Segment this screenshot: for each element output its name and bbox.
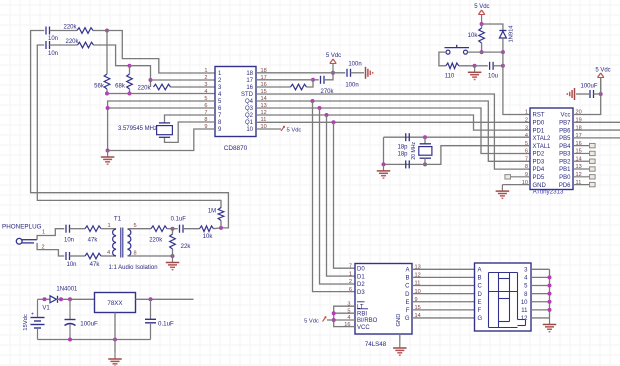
svg-text:18p: 18p bbox=[397, 145, 408, 151]
connector stub pin 12 bbox=[573, 175, 595, 179]
junction R3 bottom bbox=[105, 92, 109, 96]
svg-text:D: D bbox=[405, 292, 410, 298]
wire regulator out rail bbox=[136, 298, 194, 300]
svg-text:1N914: 1N914 bbox=[509, 25, 515, 43]
ground GND3 bbox=[468, 66, 482, 80]
svg-text:22k: 22k bbox=[181, 244, 192, 250]
svg-text:20 MHz: 20 MHz bbox=[411, 141, 417, 159]
wire R7 to switch row bbox=[481, 43, 483, 52]
pin numbers U1 right bbox=[261, 68, 267, 130]
svg-text:17: 17 bbox=[246, 78, 253, 84]
svg-text:E: E bbox=[478, 300, 482, 306]
resistor R9 47k bbox=[85, 226, 101, 244]
junction display bus y301 bbox=[548, 300, 552, 304]
label 74LS48 bbox=[365, 341, 387, 348]
svg-text:100uF: 100uF bbox=[580, 84, 597, 90]
wire 5V to R7 bbox=[481, 24, 483, 28]
junction node X bbox=[219, 226, 223, 230]
svg-text:D1: D1 bbox=[357, 274, 365, 280]
svg-text:1N4001: 1N4001 bbox=[56, 287, 78, 293]
crystal X1 3.579545 MHz bbox=[118, 123, 172, 137]
diode D2 1N914 bbox=[499, 25, 514, 43]
svg-text:PB4: PB4 bbox=[559, 144, 571, 150]
svg-text:V1: V1 bbox=[42, 306, 50, 312]
svg-text:1: 1 bbox=[525, 110, 528, 116]
wire pin 5 to ground rail bbox=[108, 101, 215, 151]
svg-text:7: 7 bbox=[525, 156, 528, 162]
resistor R14 1M bbox=[208, 208, 224, 221]
connector stub pin 15 bbox=[573, 151, 595, 155]
wire R3 to pin4 rail bbox=[106, 89, 108, 94]
resistor R8 110 bbox=[445, 63, 459, 80]
svg-text:G: G bbox=[478, 316, 483, 322]
wire segment E bbox=[412, 301, 475, 303]
pin numbers U1 left bbox=[204, 68, 207, 130]
connector stub pin 16 bbox=[573, 143, 595, 147]
wire C6 to Vcc riser bbox=[594, 93, 601, 95]
junction RBI bbox=[332, 311, 336, 315]
svg-text:2: 2 bbox=[525, 117, 528, 123]
wire R6 to node St bbox=[307, 80, 314, 87]
svg-text:1M: 1M bbox=[208, 209, 216, 215]
junction Vdd node bbox=[331, 71, 335, 75]
svg-text:74LS48: 74LS48 bbox=[365, 341, 387, 348]
junction reset top bbox=[480, 22, 484, 26]
resistor R12 22k bbox=[170, 234, 192, 250]
svg-text:D: D bbox=[478, 292, 483, 298]
ground GND10 bbox=[543, 318, 557, 332]
label T1 bbox=[114, 215, 122, 222]
svg-text:A: A bbox=[478, 268, 482, 274]
wire node A down to R3 bbox=[106, 31, 108, 75]
wire node Y to R12 bbox=[172, 229, 174, 234]
svg-text:100n: 100n bbox=[345, 83, 358, 89]
connector stub pin 13 bbox=[573, 167, 595, 171]
wire diode to RST node bbox=[502, 38, 504, 52]
wire regulator gnd bbox=[114, 313, 116, 353]
wire node B to node C bbox=[130, 66, 151, 87]
pin numbers U4 left bbox=[344, 263, 352, 327]
svg-text:11: 11 bbox=[521, 308, 528, 314]
resistor R13 10k bbox=[200, 226, 214, 240]
wire pin 16 to R6 bbox=[256, 86, 291, 88]
wire Q2 tap to D1 bbox=[327, 115, 356, 276]
svg-text:F: F bbox=[478, 308, 482, 314]
junction diode cathode bbox=[59, 297, 63, 301]
power 5Vdc port Vcc bbox=[595, 68, 610, 95]
wire pin 8 to crystal bottom bbox=[165, 122, 216, 142]
svg-text:C: C bbox=[405, 284, 410, 290]
svg-text:110: 110 bbox=[445, 74, 455, 80]
wire Q4 tap to D3 bbox=[313, 101, 356, 292]
svg-text:PB1: PB1 bbox=[559, 167, 571, 173]
connector stub pin 11 bbox=[573, 182, 595, 186]
ground GND8 bbox=[108, 353, 122, 366]
svg-text:PD5: PD5 bbox=[533, 175, 545, 181]
wire Q1 tap to D0 bbox=[334, 122, 356, 268]
label T1 pin8 bbox=[133, 251, 136, 257]
svg-text:1: 1 bbox=[204, 68, 207, 74]
wire PB7 out bbox=[573, 121, 620, 123]
wire gnd node to C5 bbox=[475, 65, 488, 67]
wire cap C2 left lead to 1M bbox=[37, 45, 221, 208]
svg-text:7: 7 bbox=[349, 263, 352, 269]
svg-text:5 Vdc: 5 Vdc bbox=[595, 68, 610, 74]
junction Q1 tap bbox=[332, 120, 336, 124]
svg-text:PD0: PD0 bbox=[533, 120, 545, 126]
wire plug sleeve down bbox=[37, 243, 64, 256]
svg-text:PB5: PB5 bbox=[559, 136, 571, 142]
label 1N4001 bbox=[56, 287, 78, 293]
regulator U3 78XX bbox=[95, 293, 136, 313]
junction crystal bottom bbox=[423, 162, 427, 166]
svg-text:4: 4 bbox=[204, 89, 207, 95]
wire segment G bbox=[412, 317, 475, 319]
svg-text:Vcc: Vcc bbox=[560, 113, 570, 119]
connector J1 phone plug bbox=[16, 238, 37, 244]
svg-text:LT: LT bbox=[357, 304, 364, 310]
svg-text:10k: 10k bbox=[468, 33, 479, 39]
svg-text:2: 2 bbox=[349, 279, 352, 285]
junction node A bbox=[105, 29, 109, 33]
wire supply bottom rail bbox=[38, 339, 151, 341]
svg-text:10: 10 bbox=[521, 300, 528, 306]
junction Vcc 100uF bbox=[599, 92, 603, 96]
svg-text:15Vdc: 15Vdc bbox=[23, 314, 29, 331]
wire Q3 tap to D2 bbox=[320, 108, 356, 284]
wire pin 7 to crystal top bbox=[165, 115, 216, 123]
junction R7 bottom bbox=[480, 50, 484, 54]
svg-text:6: 6 bbox=[525, 149, 528, 155]
ground GND6 bbox=[377, 164, 391, 178]
wire PB6 out bbox=[573, 129, 620, 131]
wire display pin y285 bbox=[531, 285, 550, 287]
junction Q2 tap bbox=[325, 113, 329, 117]
svg-text:Q1: Q1 bbox=[245, 120, 254, 126]
svg-text:16: 16 bbox=[246, 85, 253, 91]
power 5Vdc port reset bbox=[474, 4, 489, 24]
wire plug tip up bbox=[37, 229, 64, 240]
svg-text:XTAL2: XTAL2 bbox=[533, 136, 552, 142]
junction display bus y309 bbox=[548, 308, 552, 312]
resistor R10 47k bbox=[85, 253, 101, 268]
svg-text:0.1uF: 0.1uF bbox=[171, 217, 187, 223]
wire Q3 to PD2 bbox=[256, 108, 530, 154]
op-amp U1 CD8870 DTMF decoder body bbox=[215, 67, 256, 137]
svg-text:6: 6 bbox=[349, 287, 352, 293]
wire supply top rail bbox=[38, 298, 51, 300]
junction node B bbox=[128, 64, 132, 68]
svg-text:RST: RST bbox=[533, 113, 545, 119]
capacitor C4 100n bbox=[347, 62, 362, 77]
wire R8 to gnd node bbox=[459, 65, 475, 67]
svg-text:G: G bbox=[405, 316, 410, 322]
resistor R3 56k bbox=[94, 74, 110, 90]
resistor R7 10k bbox=[468, 28, 485, 43]
svg-text:10n: 10n bbox=[48, 51, 58, 57]
svg-text:PB3: PB3 bbox=[559, 152, 571, 158]
ground GND2 rotated bbox=[366, 67, 373, 79]
svg-text:10n: 10n bbox=[64, 238, 74, 244]
wire pin 17 to C3 bbox=[256, 79, 319, 81]
label 1:1 Audio Isolation bbox=[109, 265, 158, 271]
wire C5 to RST riser bbox=[493, 65, 503, 67]
svg-text:10: 10 bbox=[246, 127, 253, 133]
svg-text:Q3: Q3 bbox=[245, 106, 254, 112]
svg-text:1: 1 bbox=[42, 230, 45, 236]
svg-text:BI/RBO: BI/RBO bbox=[357, 318, 378, 324]
svg-text:PB6: PB6 bbox=[559, 128, 571, 134]
wire Q4 to PD3 bbox=[256, 101, 530, 161]
wire R2 to node B bbox=[94, 45, 130, 66]
wire R10 to T1 bbox=[101, 255, 116, 257]
svg-text:3: 3 bbox=[525, 125, 528, 131]
svg-text:Q4: Q4 bbox=[245, 99, 254, 105]
svg-text:B: B bbox=[405, 276, 409, 282]
svg-text:18: 18 bbox=[246, 71, 253, 77]
wire C10 to R10 bbox=[70, 255, 86, 257]
wire GND pin10 bbox=[502, 184, 530, 186]
wire Vcc pin20 bbox=[573, 79, 601, 115]
connector stub pin 9 bbox=[505, 175, 530, 179]
junction node St pin17 bbox=[311, 78, 315, 82]
wire C1 to R1 bbox=[50, 30, 78, 32]
capacitor C11 0.1uF bbox=[171, 217, 187, 233]
wire U4 gnd bbox=[399, 334, 401, 342]
svg-text:C: C bbox=[478, 284, 483, 290]
capacitor C8 18p bbox=[397, 152, 409, 169]
svg-text:STD: STD bbox=[241, 92, 254, 98]
power 5Vdc port U1 bbox=[326, 53, 341, 73]
resistor R2 220k bbox=[65, 39, 93, 48]
wire 18p caps common bbox=[383, 137, 385, 164]
wire node C to pin 2 bbox=[151, 79, 216, 81]
resistor R11 220k bbox=[149, 226, 167, 244]
svg-text:D2: D2 bbox=[357, 282, 365, 288]
label CD8870 bbox=[224, 145, 248, 152]
wire pin 10 5Vdc bbox=[256, 128, 281, 130]
junction display bus y277 bbox=[548, 275, 552, 279]
wire crystal top lead bbox=[424, 137, 426, 144]
svg-text:56k: 56k bbox=[94, 84, 105, 90]
svg-text:1: 1 bbox=[349, 271, 352, 277]
wire C11 to R13 bbox=[183, 228, 200, 230]
svg-text:PD3: PD3 bbox=[533, 159, 545, 165]
wire Q1 to PD0 bbox=[256, 121, 530, 123]
capacitor C6 100uF bbox=[580, 84, 597, 99]
wire C6 to ground bbox=[576, 93, 590, 95]
wire 1M bottom to node X bbox=[220, 221, 222, 228]
svg-text:8: 8 bbox=[525, 164, 528, 170]
mcu U2 ATtiny2313 body bbox=[530, 108, 573, 190]
wire XTAL2 net bbox=[384, 136, 531, 138]
resistor R5 220k feedback bbox=[137, 84, 170, 91]
svg-text:A: A bbox=[405, 268, 409, 274]
wire C2 to R2 bbox=[50, 44, 78, 46]
wire switch left down bbox=[439, 52, 446, 66]
junction caps common gnd bbox=[382, 162, 386, 166]
junction diode anode bbox=[43, 297, 47, 301]
wire diode to regulator bbox=[57, 298, 95, 300]
label T1 pin1 bbox=[107, 223, 110, 229]
svg-text:220k: 220k bbox=[137, 86, 151, 92]
svg-text:XTAL1: XTAL1 bbox=[533, 144, 552, 150]
wire Q2 to PD1 bbox=[256, 115, 530, 130]
label plug pin 2 bbox=[41, 245, 44, 251]
svg-text:18p: 18p bbox=[397, 152, 408, 158]
battery V1 15Vdc bbox=[23, 299, 50, 339]
wire top to diode bbox=[482, 24, 503, 31]
wire segment A bbox=[412, 268, 475, 270]
svg-text:100uF: 100uF bbox=[80, 321, 98, 328]
junction node Y ground bbox=[171, 254, 175, 258]
junction Q4 tap bbox=[311, 99, 315, 103]
capacitor C7 18p bbox=[397, 133, 409, 150]
wire T1 sec top bbox=[128, 228, 152, 230]
wire display pin y277 bbox=[531, 276, 550, 278]
wire node B down to R4 bbox=[129, 66, 131, 74]
wire segment B bbox=[412, 276, 475, 278]
resistor R4 68k bbox=[115, 74, 132, 90]
wire pin 18 Vdd bbox=[256, 72, 345, 74]
resistor R1 220k bbox=[63, 25, 93, 34]
wire R5 to pin 3 bbox=[171, 86, 216, 88]
junction diode bottom bbox=[501, 50, 505, 54]
junction C13 top bbox=[149, 297, 153, 301]
junction regulator gnd bbox=[113, 338, 117, 342]
capacitor C9 10n bbox=[64, 225, 74, 244]
pin numbers U2 left bbox=[522, 110, 528, 186]
capacitor C3 100n bbox=[321, 76, 359, 89]
wire crystal bottom lead bbox=[424, 158, 426, 164]
svg-text:5 Vdc: 5 Vdc bbox=[287, 128, 302, 134]
svg-text:B: B bbox=[478, 276, 482, 282]
svg-text:PD4: PD4 bbox=[533, 167, 545, 173]
svg-text:47k: 47k bbox=[90, 262, 101, 268]
diode D1 1N4001 bbox=[50, 296, 58, 303]
wire node A to pin1 path bbox=[107, 31, 215, 74]
capacitor C5 10u bbox=[488, 62, 498, 80]
svg-text:3: 3 bbox=[204, 82, 207, 88]
svg-text:68k: 68k bbox=[115, 84, 126, 90]
wire display pin y293 bbox=[531, 293, 550, 295]
junction node C pin2 bbox=[149, 78, 153, 82]
junction R4 bottom bbox=[128, 92, 132, 96]
label PHONEPLUG bbox=[2, 224, 42, 231]
junction display bus y285 bbox=[548, 284, 552, 288]
capacitor C10 10n bbox=[66, 252, 77, 268]
resistor R6 270k bbox=[291, 84, 335, 95]
wire R12 to ground node bbox=[172, 249, 174, 256]
wire segment F bbox=[412, 309, 475, 311]
power 5Vdc tick U4 bbox=[304, 317, 326, 325]
junction display bus y293 bbox=[548, 292, 552, 296]
wire display pin y309 bbox=[531, 309, 550, 311]
svg-text:PHONEPLUG: PHONEPLUG bbox=[2, 224, 42, 231]
label plug pin 1 bbox=[42, 230, 45, 236]
wire 5Vdc to rail bbox=[327, 319, 334, 321]
junction R8 C5 bbox=[473, 64, 477, 68]
wire STD to PD4 bbox=[256, 94, 530, 169]
switch S1 pushbutton bbox=[445, 45, 470, 54]
wire segment D bbox=[412, 293, 475, 295]
svg-text:220k: 220k bbox=[63, 25, 77, 31]
capacitor C2 10n bbox=[46, 41, 58, 57]
wire R11 to node Y bbox=[167, 228, 173, 230]
svg-text:1: 1 bbox=[107, 223, 110, 229]
svg-text:220k: 220k bbox=[149, 238, 163, 244]
wire C9 to R9 bbox=[70, 228, 86, 230]
svg-text:+: + bbox=[31, 312, 34, 318]
wire pin 4 rail bbox=[107, 93, 215, 95]
svg-text:PB0: PB0 bbox=[559, 175, 571, 181]
label ATtiny2313 bbox=[533, 189, 564, 196]
transformer T1 body bbox=[113, 228, 131, 258]
wire segment C bbox=[412, 285, 475, 287]
wire R13 to node X bbox=[214, 227, 222, 230]
svg-text:PB2: PB2 bbox=[559, 159, 571, 165]
svg-text:D3: D3 bbox=[357, 290, 365, 296]
junction crystal top bbox=[423, 135, 427, 139]
svg-text:PB7: PB7 bbox=[559, 120, 571, 126]
svg-text:78XX: 78XX bbox=[107, 300, 122, 307]
wire display pin y317 bbox=[531, 317, 550, 319]
svg-text:10k: 10k bbox=[203, 234, 214, 240]
wire LT rail bbox=[334, 306, 355, 326]
wire R1 to node A bbox=[93, 30, 107, 32]
svg-text:PD1: PD1 bbox=[533, 128, 545, 134]
wire T1 sec bottom bbox=[128, 255, 173, 257]
capacitor C13 0.1uF bbox=[145, 299, 174, 339]
label T1 pin4 bbox=[107, 250, 110, 256]
wire RBI stub bbox=[334, 312, 355, 314]
wire R9 to T1 bbox=[101, 228, 116, 230]
crystal X2 20 MHz bbox=[411, 141, 432, 159]
svg-text:Q2: Q2 bbox=[245, 113, 254, 119]
power 5Vdc tick U1 pin10 bbox=[281, 126, 301, 134]
svg-text:VCC: VCC bbox=[357, 325, 370, 331]
wire C4 to ground bbox=[351, 72, 365, 74]
wire switch right bbox=[468, 51, 503, 53]
svg-text:ATtiny2313: ATtiny2313 bbox=[533, 189, 564, 196]
wire XTAL1 net bottom bbox=[384, 146, 531, 165]
wire PB5 out bbox=[573, 137, 620, 139]
pin numbers U4 right bbox=[415, 265, 421, 320]
junction C12 top bbox=[68, 297, 72, 301]
svg-text:10u: 10u bbox=[488, 74, 498, 80]
capacitor C12 100uF polarized bbox=[65, 299, 99, 339]
svg-text:5 Vdc: 5 Vdc bbox=[326, 53, 341, 59]
svg-text:1:1 Audio Isolation: 1:1 Audio Isolation bbox=[109, 265, 158, 271]
decoder U4 74LS48 body bbox=[355, 264, 412, 335]
wire pin 6 bbox=[108, 107, 215, 109]
svg-text:47k: 47k bbox=[88, 238, 99, 244]
svg-text:F: F bbox=[406, 308, 410, 314]
svg-text:220k: 220k bbox=[65, 39, 79, 45]
svg-text:E: E bbox=[405, 300, 409, 306]
wire cap C1 left lead to node X bbox=[31, 31, 229, 228]
wire display pin y301 bbox=[531, 301, 550, 303]
svg-text:3.579545 MHz: 3.579545 MHz bbox=[118, 126, 157, 132]
junction node Y bbox=[171, 227, 175, 231]
wire display pin y269 bbox=[531, 268, 550, 270]
pin numbers U2 right bbox=[576, 110, 582, 186]
wire C3 to Vdd node bbox=[324, 73, 333, 80]
junction ground node bbox=[106, 149, 110, 153]
ground GND7 bbox=[166, 256, 180, 270]
ground GND5 rotated bbox=[567, 88, 574, 100]
junction RST riser bbox=[501, 64, 505, 68]
